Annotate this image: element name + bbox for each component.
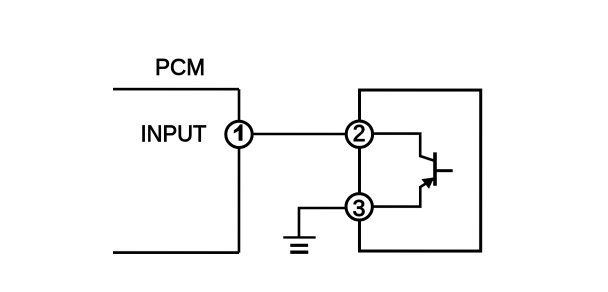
transistor Q1 emitter with arrow xyxy=(420,177,434,188)
wire: emitter to node 3 xyxy=(359,186,420,207)
wire: PCM box right vertical through node 1 xyxy=(238,89,241,252)
wire: node 3 to ground xyxy=(299,208,360,237)
svg-text:3: 3 xyxy=(353,195,366,221)
wire: node 2 to transistor collector xyxy=(359,134,433,161)
ground symbol xyxy=(283,237,315,252)
wire: PCM box bottom line xyxy=(113,251,239,254)
node 1 terminal circle xyxy=(226,121,252,147)
svg-text:2: 2 xyxy=(353,120,366,146)
wire: PCM box top line xyxy=(113,88,239,91)
transistor Q1 base lead xyxy=(436,169,452,172)
node 3 terminal circle xyxy=(346,194,372,220)
svg-text:PCM: PCM xyxy=(155,54,205,80)
svg-text:INPUT: INPUT xyxy=(140,120,206,146)
wire: node 1 to node 2 xyxy=(239,133,359,136)
pin number 1 xyxy=(234,124,243,140)
connector box outline xyxy=(359,90,480,251)
transistor Q1 base bar xyxy=(433,152,437,185)
node 2 terminal circle xyxy=(346,121,372,147)
